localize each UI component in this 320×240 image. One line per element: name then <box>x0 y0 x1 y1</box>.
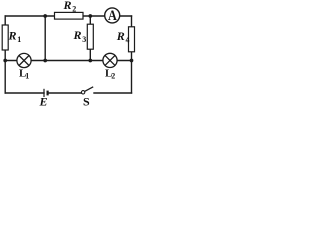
ammeter A <box>105 7 120 23</box>
wire middle branch vertical <box>44 16 46 61</box>
switch S <box>81 87 93 109</box>
lamp L1 <box>17 53 31 80</box>
node middle junction far-right <box>130 59 134 63</box>
wire R3 branch vertical <box>89 16 91 61</box>
svg-text:R: R <box>73 28 82 42</box>
node top junction right <box>88 14 92 18</box>
svg-text:3: 3 <box>82 35 86 44</box>
resistor R1 <box>2 25 21 50</box>
resistor R4 <box>116 27 135 52</box>
node middle junction far-left <box>3 59 7 63</box>
resistor R2 <box>55 0 84 19</box>
resistor R3 <box>73 24 94 49</box>
wire bottom right segment <box>94 92 132 94</box>
wire bottom left segment <box>5 92 44 94</box>
wire bottom middle segment <box>48 92 81 94</box>
svg-text:A: A <box>108 7 117 23</box>
wire middle horizontal <box>5 60 131 62</box>
wire right vertical <box>131 16 133 93</box>
svg-text:R: R <box>63 0 72 12</box>
svg-text:2: 2 <box>72 4 76 13</box>
svg-text:4: 4 <box>126 35 130 44</box>
wire top horizontal <box>5 15 131 17</box>
svg-text:E: E <box>39 95 48 108</box>
svg-text:R: R <box>8 29 17 43</box>
node top junction left <box>43 14 47 18</box>
lamp L2 <box>103 53 117 80</box>
wire left vertical <box>4 16 6 93</box>
svg-text:S: S <box>83 95 90 108</box>
svg-text:1: 1 <box>17 35 21 44</box>
svg-text:1: 1 <box>25 71 29 80</box>
svg-text:2: 2 <box>111 71 115 80</box>
battery E <box>39 89 48 109</box>
svg-text:R: R <box>116 29 125 43</box>
node middle junction below R3 <box>88 59 92 63</box>
node middle junction center <box>43 59 47 63</box>
